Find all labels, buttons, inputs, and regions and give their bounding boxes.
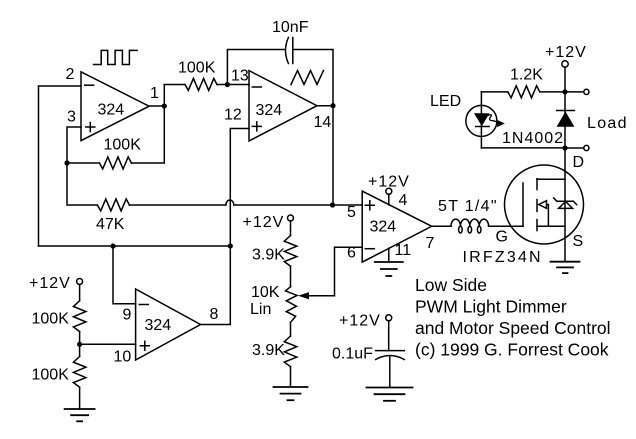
node supply junction [562, 89, 567, 94]
svg-text:0.1uF: 0.1uF [332, 346, 373, 363]
wire pin2 input [39, 85, 82, 87]
wire pot bottom [290, 323, 292, 337]
svg-text:+12V: +12V [339, 313, 381, 330]
wire to load bottom terminal [565, 147, 584, 149]
body diode [554, 198, 577, 209]
svg-text:100K: 100K [178, 60, 216, 77]
resistor 3.9K upper [284, 236, 297, 267]
wire feedback right [131, 106, 164, 163]
capacitor 0.1uF [332, 346, 404, 363]
wire op4 to ground [388, 248, 390, 262]
wire 1.2K to LED [481, 91, 507, 93]
wire [290, 266, 292, 287]
+12V terminal (top right) [562, 61, 568, 67]
svg-text:324: 324 [256, 102, 283, 119]
svg-text:7: 7 [426, 235, 435, 252]
wire pin 10 [80, 343, 136, 345]
svg-text:PWM Light Dimmer: PWM Light Dimmer [415, 297, 567, 317]
wire to 1.2K [540, 91, 565, 93]
resistor 100K lower divider [73, 357, 86, 388]
op-amp U4 (324) [362, 191, 432, 262]
wire 47K to hop [129, 204, 226, 206]
diode D1 1N4002 [557, 111, 575, 127]
ground (op4) [375, 262, 403, 276]
svg-text:Low Side: Low Side [415, 275, 487, 295]
svg-text:3.9K: 3.9K [252, 247, 285, 264]
wire op2 output down [332, 106, 334, 205]
svg-text:Lin: Lin [250, 301, 271, 318]
wire LED bottom [481, 147, 565, 149]
wire to ground [79, 387, 81, 409]
resistor 3.9K lower [284, 336, 297, 367]
+12V terminal (divider) [77, 279, 83, 285]
wire output up to 100K [164, 85, 185, 107]
potentiometer 10K Lin [286, 287, 298, 323]
wire coil to gate [489, 225, 523, 227]
+12V terminal (op4) [386, 188, 392, 194]
svg-text:324: 324 [370, 219, 397, 236]
+12V terminal (0.1uF) [386, 315, 392, 321]
load terminal bottom [584, 145, 589, 150]
resistor (feedback zigzag) [291, 71, 324, 85]
title text block [415, 275, 611, 360]
resistor 100K feedback [99, 157, 131, 169]
wire drain-source vertical [564, 148, 566, 262]
svg-text:10nF: 10nF [272, 19, 309, 36]
op-amp U3 (324) [136, 289, 201, 360]
wire op4 output [432, 225, 451, 227]
wire wiper to pin 6 [335, 247, 363, 295]
node triangle-wave junction [330, 202, 335, 207]
svg-text:1N4002: 1N4002 [502, 130, 564, 147]
svg-text:10K: 10K [251, 284, 280, 301]
wire terminal to cap [388, 321, 390, 351]
ground (MOSFET) [551, 262, 580, 273]
wire supply to drain vertical [564, 92, 566, 148]
svg-text:+12V: +12V [368, 174, 410, 191]
wire pin 9 [113, 246, 136, 304]
svg-text:100K: 100K [32, 367, 70, 384]
svg-text:S: S [573, 233, 584, 250]
wire hop over vertical [226, 200, 234, 205]
svg-text:324: 324 [98, 102, 125, 119]
svg-text:11: 11 [395, 242, 412, 259]
svg-text:+12V: +12V [29, 275, 71, 292]
ground (pot) [274, 387, 308, 400]
svg-text:5: 5 [347, 204, 356, 221]
wire hop to pin 5 [234, 204, 362, 206]
wire pin3 node down to 47K [67, 163, 97, 205]
node pin9 tap [110, 243, 115, 248]
resistor 100K upper divider [73, 301, 86, 332]
+12V terminal (pot) [288, 215, 294, 221]
wire terminal down [564, 67, 566, 92]
wire pin3 input [67, 127, 81, 163]
svg-text:(c) 1999 G. Forrest Cook: (c) 1999 G. Forrest Cook [415, 340, 609, 360]
resistor 47K [97, 199, 129, 211]
node op2 output [330, 103, 335, 108]
svg-text:5T 1/4": 5T 1/4" [438, 198, 498, 215]
svg-text:Load: Load [587, 115, 628, 132]
capacitor C1 10nF [272, 19, 309, 64]
svg-text:324: 324 [145, 317, 172, 334]
inductor L1 5T [438, 198, 498, 233]
wire reference line [39, 245, 231, 247]
node pin8/pin12 junction [228, 243, 233, 248]
resistor 100K series [185, 78, 217, 90]
wire op1 output [149, 105, 164, 107]
svg-text:100K: 100K [104, 137, 142, 154]
node pin3/feedback junction [64, 160, 69, 165]
load terminal top [584, 89, 589, 94]
svg-text:IRFZ34N: IRFZ34N [463, 249, 543, 266]
svg-text:14: 14 [314, 114, 332, 131]
wire op2 output [317, 105, 333, 107]
svg-text:1: 1 [150, 85, 159, 102]
pot wiper arrow [298, 292, 309, 299]
node pin13 junction [225, 82, 230, 87]
wire left vertical [38, 86, 40, 246]
op-amp U2 (324) [249, 71, 317, 141]
square wave symbol [94, 50, 138, 64]
svg-text:10: 10 [114, 349, 132, 366]
wire divider mid [79, 332, 81, 357]
wire pin 8 output [201, 246, 231, 325]
svg-text:LED: LED [430, 93, 461, 110]
svg-text:3: 3 [67, 109, 76, 126]
svg-text:12: 12 [224, 107, 242, 124]
svg-text:4: 4 [399, 192, 408, 209]
svg-text:100K: 100K [32, 311, 70, 328]
op-amp U1 (324) [81, 72, 149, 141]
wire cap to ground [389, 357, 391, 388]
svg-text:6: 6 [347, 245, 356, 262]
ground (0.1uF) [367, 388, 413, 401]
wire feedback left [67, 162, 99, 164]
svg-text:G: G [496, 229, 508, 246]
svg-text:and Motor Speed Control: and Motor Speed Control [415, 318, 611, 338]
LED D2 [466, 92, 505, 148]
wire to pin 13 [217, 84, 249, 86]
transistor Q1 IRFZ34N [505, 165, 584, 244]
svg-text:2: 2 [66, 66, 75, 83]
svg-text:8: 8 [210, 306, 219, 323]
node drain junction [562, 145, 567, 150]
wire supply to op4 [388, 194, 390, 205]
wire to load top terminal [565, 91, 584, 93]
wire integrator feedback up [227, 50, 284, 85]
svg-text:47K: 47K [96, 216, 125, 233]
svg-text:D: D [573, 154, 585, 171]
svg-text:13: 13 [231, 68, 249, 85]
node divider midpoint [77, 342, 82, 347]
svg-text:+12V: +12V [243, 214, 285, 231]
wire terminal down [79, 285, 81, 301]
svg-text:1.2K: 1.2K [510, 67, 543, 84]
svg-text:9: 9 [123, 307, 132, 324]
wire to ground [290, 367, 292, 387]
wire pin 12 [230, 129, 249, 247]
svg-text:3.9K: 3.9K [252, 342, 285, 359]
resistor 1.2K [508, 86, 540, 98]
wire terminal to 3.9K [290, 221, 292, 236]
wire cap to output [293, 50, 333, 106]
node op1 output [162, 103, 167, 108]
ground (divider) [65, 409, 95, 421]
svg-text:+12V: +12V [545, 44, 587, 61]
